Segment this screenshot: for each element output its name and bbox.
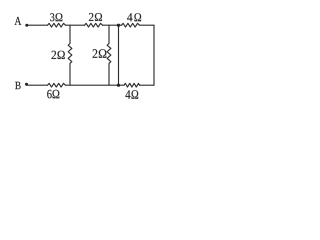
value label 3 ohm — [50, 13, 62, 21]
wire: B to R6 — [27, 84, 48, 86]
value label 2 ohm top — [89, 13, 102, 21]
node B label — [15, 82, 20, 89]
wire: R6 to R7 — [66, 84, 125, 86]
terminal dot A — [25, 24, 28, 27]
value label 4 ohm top — [127, 13, 141, 21]
resistor R7 4ohm bottom-right — [124, 83, 139, 87]
wire: R7 to bottom-right corner — [140, 84, 155, 86]
wire: R2 to R3 — [103, 24, 122, 26]
junction dot bottom node — [117, 84, 120, 87]
wire: right vertical side — [153, 25, 155, 85]
value label 2 ohm vertical-middle — [93, 49, 107, 58]
node A label — [15, 17, 22, 25]
resistor R6 6ohm bottom-left — [48, 83, 66, 87]
resistor R1 3ohm top-left — [48, 23, 66, 27]
resistor R3 4ohm top-right — [122, 23, 140, 27]
junction dot top node — [117, 24, 120, 27]
terminal dot B — [25, 83, 28, 86]
wire: R3 to top-right corner — [140, 24, 155, 26]
resistor R4 2ohm vertical-left with stubs — [68, 25, 72, 85]
wire: A to R1 — [27, 24, 48, 26]
value label 2 ohm vertical-left — [52, 51, 65, 59]
resistor R5 2ohm vertical-middle with stubs — [107, 25, 111, 85]
value label 4 ohm bottom — [125, 90, 138, 99]
wire: plain vertical branch — [118, 25, 120, 85]
value label 6 ohm — [47, 90, 59, 99]
resistor R2 2ohm top-middle — [85, 23, 103, 27]
wire: R1 to R2 — [66, 24, 85, 26]
